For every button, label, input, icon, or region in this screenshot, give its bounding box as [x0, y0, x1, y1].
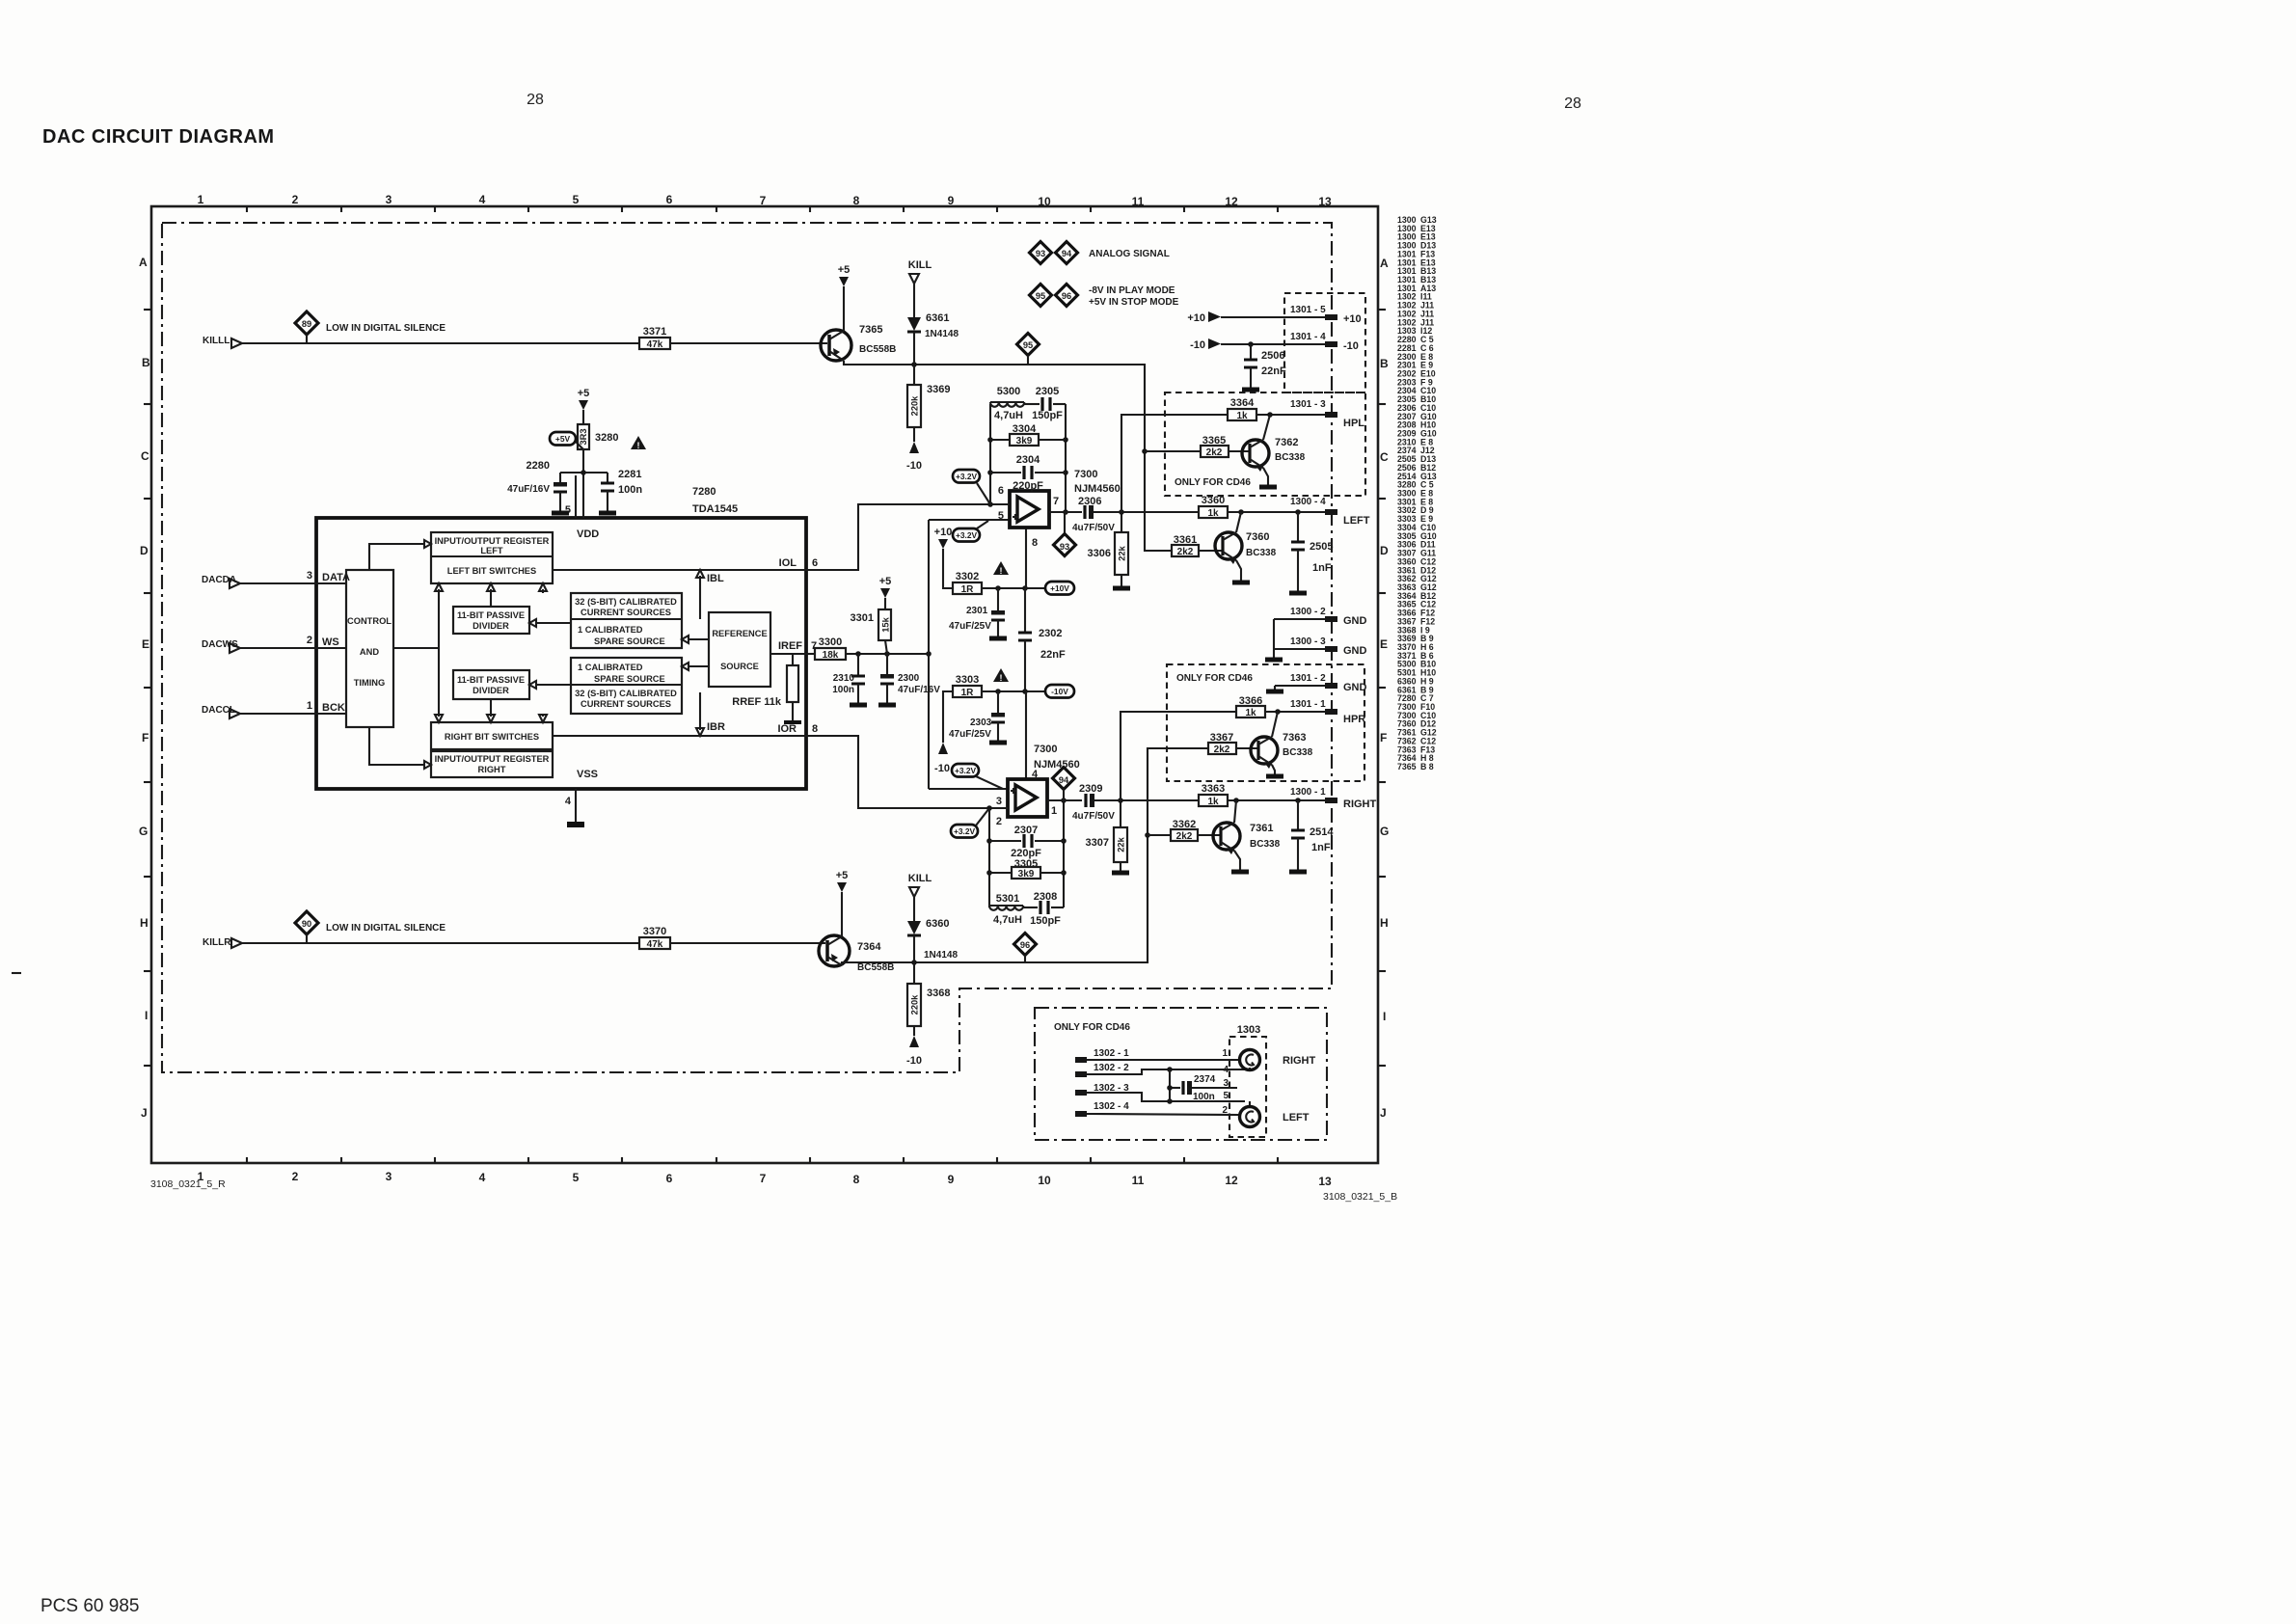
- svg-text:1300 - 1: 1300 - 1: [1290, 787, 1326, 798]
- svg-text:100n: 100n: [832, 685, 854, 695]
- supply node oval +3.2V at pin2: [951, 808, 989, 838]
- svg-text:1: 1: [198, 193, 204, 206]
- svg-text:7364: 7364: [857, 941, 881, 953]
- svg-text:F: F: [142, 731, 149, 744]
- wire HPR tap from RIGHT line: [1121, 712, 1236, 800]
- connector jack RIGHT phono: [1240, 1050, 1316, 1070]
- svg-text:5: 5: [573, 193, 580, 206]
- warning triangle upper: [993, 561, 1009, 576]
- supply arrow -10 below 3368: [906, 1026, 922, 1067]
- svg-text:1R: 1R: [961, 688, 975, 698]
- svg-text:!: !: [637, 441, 640, 450]
- svg-text:C: C: [1380, 450, 1389, 464]
- svg-text:+10: +10: [1187, 312, 1205, 324]
- svg-text:WS: WS: [322, 636, 339, 648]
- svg-text:RIGHT: RIGHT: [478, 765, 506, 774]
- wire reference to spare source lower arrow: [689, 665, 709, 667]
- resistor 3365 2k2: [1201, 435, 1250, 458]
- svg-text:2k2: 2k2: [1177, 547, 1194, 557]
- svg-text:32 (S-BIT) CALIBRATED: 32 (S-BIT) CALIBRATED: [575, 597, 677, 607]
- node 1302-1 wire: [1075, 1048, 1239, 1063]
- diamond 89 low in digital silence: [295, 311, 318, 343]
- frame column ticks top: [247, 206, 1278, 212]
- svg-text:150pF: 150pF: [1032, 410, 1063, 421]
- svg-text:96: 96: [1020, 940, 1030, 950]
- supply arrow +5 at 7365 collector: [838, 264, 851, 331]
- svg-text:-10: -10: [906, 460, 922, 472]
- svg-text:-10: -10: [934, 763, 950, 774]
- supply node oval +5V: [550, 432, 583, 449]
- svg-text:2309: 2309: [1079, 783, 1102, 795]
- resistor 3301 15k: [851, 609, 891, 654]
- svg-text:3k9: 3k9: [1016, 436, 1033, 447]
- svg-text:22nF: 22nF: [1261, 365, 1286, 377]
- svg-text:7365B 8: 7365B 8: [1397, 762, 1434, 771]
- svg-text:7361: 7361: [1250, 823, 1273, 834]
- supply arrow -10 feed: [934, 691, 953, 774]
- svg-text:2304: 2304: [1016, 454, 1040, 466]
- svg-text:+10V: +10V: [1050, 583, 1069, 593]
- svg-text:90: 90: [302, 919, 311, 929]
- grid column numbers bottom: [198, 1170, 1332, 1188]
- svg-text:KILLR: KILLR: [203, 937, 231, 948]
- svg-text:1302 - 2: 1302 - 2: [1094, 1063, 1129, 1073]
- svg-text:3306: 3306: [1088, 548, 1111, 559]
- transistor 7362 BC338: [1242, 415, 1306, 487]
- capacitor 2307 220pF: [989, 825, 1064, 859]
- svg-text:4,7uH: 4,7uH: [993, 914, 1022, 926]
- svg-text:ONLY FOR CD46: ONLY FOR CD46: [1176, 673, 1253, 684]
- svg-text:1: 1: [1051, 805, 1057, 817]
- schematic frame border: [151, 206, 1378, 1163]
- svg-text:1302 - 1: 1302 - 1: [1094, 1048, 1129, 1059]
- svg-text:2300: 2300: [898, 673, 920, 684]
- legend diamond 94: [1056, 242, 1078, 264]
- resistor 3302 1R: [953, 571, 1045, 595]
- dashed box 1303 phono connector: [1229, 1037, 1266, 1137]
- svg-text:IOL: IOL: [779, 557, 797, 569]
- inductor 5301 4,7uH: [989, 893, 1023, 926]
- supply arrow +5 at 7364 collector: [836, 870, 849, 936]
- svg-text:12: 12: [1225, 195, 1238, 208]
- svg-text:7300: 7300: [1034, 744, 1057, 755]
- svg-text:3363: 3363: [1202, 783, 1225, 795]
- svg-text:13: 13: [1318, 195, 1332, 208]
- wire opamp2 pin4 to -10 rail: [1025, 691, 1027, 779]
- node +10 supply input to 1301-5: [1187, 305, 1361, 325]
- svg-text:3: 3: [1223, 1078, 1229, 1089]
- svg-text:1300 - 2: 1300 - 2: [1290, 607, 1326, 617]
- svg-text:3: 3: [386, 1170, 392, 1183]
- svg-text:2310: 2310: [833, 673, 855, 684]
- node 1301-2 GND terminal: [1275, 673, 1367, 693]
- svg-text:ANALOG SIGNAL: ANALOG SIGNAL: [1089, 249, 1170, 259]
- supply arrow +5 above 3280: [578, 388, 590, 424]
- feedback network op-amp1 right rail: [1065, 404, 1067, 512]
- svg-text:22nF: 22nF: [1040, 649, 1066, 661]
- capacitor 2310 100n: [832, 654, 867, 705]
- svg-text:8: 8: [853, 1173, 860, 1186]
- svg-text:3302: 3302: [956, 571, 979, 582]
- wire control to I/O register right with arrow: [369, 727, 424, 765]
- capacitor 2280 47uF/16V: [507, 460, 569, 513]
- op-amp U7300b NJM4560: [996, 779, 1057, 827]
- resistor 3363 1k on RIGHT line: [1199, 783, 1325, 807]
- svg-text:LOW IN DIGITAL SILENCE: LOW IN DIGITAL SILENCE: [326, 923, 446, 934]
- resistor 3360 1k on LEFT line: [1199, 495, 1325, 519]
- svg-text:4u7F/50V: 4u7F/50V: [1072, 523, 1115, 533]
- svg-text:22k: 22k: [1117, 836, 1126, 852]
- svg-text:RIGHT BIT SWITCHES: RIGHT BIT SWITCHES: [445, 732, 539, 742]
- svg-text:1k: 1k: [1207, 508, 1219, 519]
- svg-text:9: 9: [948, 1173, 955, 1186]
- svg-text:TDA1545: TDA1545: [692, 503, 738, 515]
- svg-text:1300 - 3: 1300 - 3: [1290, 636, 1326, 647]
- svg-text:+10: +10: [1343, 313, 1362, 325]
- svg-text:1: 1: [198, 1170, 204, 1183]
- svg-text:NJM4560: NJM4560: [1074, 483, 1121, 495]
- svg-text:4u7F/50V: 4u7F/50V: [1072, 811, 1115, 822]
- resistor 3364 1k: [1228, 397, 1325, 421]
- svg-text:F: F: [1380, 731, 1387, 744]
- svg-text:2: 2: [996, 816, 1002, 827]
- grid row letters left: [139, 256, 150, 1120]
- svg-text:7280: 7280: [692, 486, 716, 498]
- wire HPL tap from LEFT line: [1121, 415, 1228, 512]
- svg-text:E: E: [1380, 637, 1388, 651]
- supply arrow +5 above 3301: [879, 576, 892, 609]
- resistor 3307 22k to ground: [1086, 798, 1129, 873]
- supply node oval +3.2V at pin5: [953, 521, 988, 542]
- svg-text:5300: 5300: [997, 386, 1020, 397]
- svg-text:+5V: +5V: [555, 434, 571, 444]
- svg-text:7360: 7360: [1246, 531, 1269, 543]
- svg-text:GND: GND: [1343, 645, 1367, 657]
- connector jack LEFT phono: [1240, 1107, 1310, 1127]
- wire KILLR mute rail: [842, 748, 1208, 965]
- svg-text:4: 4: [565, 796, 572, 807]
- svg-text:3108_0321_5_R: 3108_0321_5_R: [150, 1178, 226, 1190]
- svg-text:3370: 3370: [643, 926, 666, 937]
- svg-text:C: C: [141, 449, 149, 463]
- wire KILLL line: [242, 342, 827, 344]
- svg-text:47k: 47k: [647, 339, 663, 350]
- input DACCL pin 1 BCK: [202, 700, 346, 718]
- svg-text:47uF/25V: 47uF/25V: [949, 621, 991, 632]
- svg-text:1: 1: [1222, 1048, 1228, 1059]
- capacitor 2374 100n: [1167, 1069, 1237, 1102]
- svg-text:CURRENT SOURCES: CURRENT SOURCES: [581, 608, 671, 617]
- svg-text:4: 4: [1223, 1065, 1229, 1075]
- svg-text:18k: 18k: [823, 650, 839, 661]
- wire pin5 line: [929, 519, 1010, 521]
- svg-text:+5: +5: [879, 576, 892, 587]
- svg-text:!: !: [1000, 673, 1003, 683]
- svg-text:RREF 11k: RREF 11k: [732, 696, 782, 708]
- svg-text:3307: 3307: [1086, 837, 1109, 849]
- supply arrow -10 below 3369: [906, 427, 922, 472]
- svg-text:150pF: 150pF: [1030, 915, 1061, 927]
- svg-text:BC338: BC338: [1283, 747, 1313, 758]
- block REFERENCE SOURCE: [709, 612, 770, 687]
- svg-text:IBR: IBR: [707, 721, 725, 733]
- svg-text:2: 2: [307, 635, 312, 646]
- input DACDA pin 3 DATA: [202, 570, 350, 588]
- legend diamond 93: [1030, 242, 1052, 264]
- svg-text:3301: 3301: [851, 612, 874, 624]
- svg-text:BC558B: BC558B: [859, 344, 896, 355]
- wire divider upper to left switches arrow: [490, 589, 492, 607]
- svg-text:ONLY FOR CD46: ONLY FOR CD46: [1054, 1022, 1130, 1033]
- block INPUT/OUTPUT REGISTER RIGHT: [431, 751, 553, 777]
- feedback network op-amp2 right rail: [1063, 800, 1065, 907]
- svg-text:D: D: [140, 544, 149, 557]
- svg-text:2: 2: [292, 1170, 299, 1183]
- capacitor 2301 47uF/25V: [949, 588, 1007, 638]
- svg-text:VSS: VSS: [577, 769, 598, 780]
- capacitor 2304 220pF: [990, 454, 1066, 492]
- svg-text:6: 6: [666, 1172, 673, 1185]
- dashed box ONLY FOR CD46 (HPR): [1167, 664, 1364, 781]
- svg-text:100n: 100n: [1193, 1092, 1215, 1102]
- capacitor 2514 1nF: [1289, 800, 1334, 872]
- svg-text:95: 95: [1023, 340, 1033, 350]
- svg-text:2505: 2505: [1310, 541, 1333, 553]
- wire control to trunk: [393, 647, 439, 649]
- block 11-BIT PASSIVE DIVIDER lower: [453, 670, 529, 699]
- svg-text:11: 11: [1132, 195, 1145, 208]
- svg-text:J: J: [1380, 1106, 1387, 1120]
- svg-text:KILL: KILL: [908, 259, 932, 271]
- input DACWS pin 2 WS: [202, 635, 346, 653]
- svg-text:DAC CIRCUIT DIAGRAM: DAC CIRCUIT DIAGRAM: [42, 126, 275, 148]
- diode 6360 1N4148: [907, 918, 958, 962]
- svg-text:GND: GND: [1343, 615, 1367, 627]
- resistor 3371 47k: [639, 326, 670, 350]
- svg-text:89: 89: [302, 319, 311, 329]
- frame row ticks left and right: [144, 310, 1386, 1066]
- capacitor 2506 22nF: [1242, 344, 1286, 390]
- svg-text:A: A: [1380, 257, 1389, 270]
- svg-text:7362: 7362: [1275, 437, 1298, 448]
- wire mute branch to 3362: [1148, 834, 1171, 836]
- node 1300-3 GND terminal: [1274, 636, 1367, 657]
- svg-text:47k: 47k: [647, 939, 663, 950]
- svg-text:13: 13: [1318, 1175, 1332, 1188]
- wire op-amp2 output pin1: [1047, 799, 1082, 801]
- svg-text:8: 8: [853, 194, 860, 207]
- svg-text:1k: 1k: [1236, 411, 1248, 421]
- svg-text:2k2: 2k2: [1214, 744, 1230, 755]
- wire bus trunk between switches: [438, 589, 440, 717]
- svg-text:NJM4560: NJM4560: [1034, 759, 1080, 771]
- wire IBR arrow into IOR: [699, 692, 701, 730]
- resistor 3305 3k9: [989, 858, 1064, 880]
- svg-text:3369: 3369: [927, 384, 950, 395]
- svg-text:220k: 220k: [910, 395, 920, 417]
- svg-text:6: 6: [998, 485, 1004, 497]
- feedback network op-amp1 left rail: [989, 404, 991, 504]
- svg-text:7: 7: [760, 1172, 767, 1185]
- svg-text:J: J: [141, 1106, 148, 1120]
- svg-text:3108_0321_5_B: 3108_0321_5_B: [1323, 1191, 1397, 1203]
- node KILLL input: [203, 336, 242, 348]
- svg-text:8: 8: [1032, 537, 1038, 549]
- svg-text:3364: 3364: [1230, 397, 1255, 409]
- svg-text:2k2: 2k2: [1206, 447, 1223, 458]
- svg-text:+5V IN STOP MODE: +5V IN STOP MODE: [1089, 297, 1179, 308]
- grid column numbers top: [198, 193, 1332, 208]
- resistor 3362 2k2: [1171, 819, 1221, 842]
- svg-text:HPL: HPL: [1343, 418, 1364, 429]
- transistor 7361 BC338: [1213, 800, 1281, 872]
- svg-text:47uF/25V: 47uF/25V: [949, 729, 991, 740]
- svg-text:3: 3: [307, 570, 312, 582]
- svg-text:IREF: IREF: [778, 640, 802, 652]
- diamond 93 on left output: [1054, 512, 1076, 556]
- svg-text:1k: 1k: [1245, 708, 1256, 718]
- svg-text:8: 8: [812, 723, 818, 735]
- svg-text:32 (S-BIT) CALIBRATED: 32 (S-BIT) CALIBRATED: [575, 689, 677, 698]
- svg-text:4: 4: [479, 193, 486, 206]
- svg-text:2303: 2303: [970, 717, 992, 728]
- svg-text:6360: 6360: [926, 918, 949, 930]
- diamond 96 on mute rail: [1014, 934, 1037, 963]
- svg-text:TIMING: TIMING: [354, 678, 386, 688]
- svg-text:2302: 2302: [1039, 628, 1062, 639]
- svg-text:LEFT: LEFT: [1283, 1112, 1310, 1123]
- svg-text:3280: 3280: [595, 432, 618, 444]
- svg-text:94: 94: [1062, 249, 1072, 258]
- resistor 3280 3R3: [578, 424, 618, 518]
- svg-text:2305: 2305: [1036, 386, 1059, 397]
- wire reference to spare source upper arrow: [689, 638, 709, 640]
- svg-text:4,7uH: 4,7uH: [994, 410, 1023, 421]
- svg-text:96: 96: [1062, 291, 1071, 301]
- svg-text:BC558B: BC558B: [857, 962, 894, 973]
- grid row letters right: [1380, 257, 1389, 1120]
- svg-text:-8V IN PLAY MODE: -8V IN PLAY MODE: [1089, 285, 1175, 296]
- dash-dot box ONLY FOR CD46 (line out connectors): [1035, 1008, 1327, 1140]
- svg-text:D: D: [1380, 544, 1389, 557]
- block CONTROL AND TIMING: [346, 570, 393, 727]
- ground at 1300-2/3: [1265, 619, 1283, 660]
- wire opamp1 pin8 to +10 rail: [1025, 528, 1027, 588]
- svg-text:10: 10: [1038, 1174, 1051, 1187]
- svg-text:28: 28: [1564, 95, 1581, 112]
- svg-text:5: 5: [998, 510, 1004, 522]
- op-amp U7300a NJM4560: [998, 485, 1059, 528]
- resistor 3366 1k: [1236, 695, 1325, 718]
- svg-text:1nF: 1nF: [1311, 842, 1331, 853]
- svg-text:BCK: BCK: [322, 702, 345, 714]
- svg-text:DATA: DATA: [322, 572, 350, 583]
- svg-text:1nF: 1nF: [1312, 562, 1332, 574]
- svg-text:5: 5: [1223, 1091, 1229, 1101]
- svg-text:+3.2V: +3.2V: [956, 472, 978, 481]
- svg-text:5301: 5301: [996, 893, 1019, 905]
- svg-text:28: 28: [527, 92, 544, 108]
- node KILL (bottom): [908, 873, 932, 921]
- capacitor 2306 4u7F/50V: [1072, 496, 1201, 533]
- svg-text:7: 7: [1053, 496, 1059, 507]
- svg-text:12: 12: [1225, 1174, 1238, 1187]
- svg-text:100n: 100n: [618, 484, 642, 496]
- svg-text:GND: GND: [1343, 682, 1367, 693]
- svg-text:6361: 6361: [926, 312, 949, 324]
- wire current sources upper to left switches arrow: [542, 589, 544, 593]
- svg-text:INPUT/OUTPUT REGISTER: INPUT/OUTPUT REGISTER: [435, 536, 550, 546]
- svg-text:1303: 1303: [1237, 1024, 1260, 1036]
- block 11-BIT PASSIVE DIVIDER upper: [453, 607, 529, 634]
- svg-text:SPARE SOURCE: SPARE SOURCE: [594, 636, 665, 646]
- capacitor 2505 1nF: [1289, 512, 1333, 593]
- svg-text:7363: 7363: [1283, 732, 1306, 744]
- block 1 CALIBRATED SPARE SOURCE / 32 (S-BIT) CALIBRATED CURRENT SOURCES lower: [571, 658, 682, 714]
- svg-text:BC338: BC338: [1246, 548, 1277, 558]
- warning triangle near 3280: [631, 436, 646, 450]
- resistor 3367 2k2: [1208, 732, 1258, 755]
- svg-text:220pF: 220pF: [1013, 480, 1043, 492]
- capacitor 2302 22nF between rails: [1018, 588, 1066, 691]
- node -10 supply input to 1301-4: [1190, 332, 1359, 352]
- svg-text:+5: +5: [838, 264, 851, 276]
- svg-text:H: H: [140, 916, 149, 930]
- node 1302-2 wire: [1075, 1063, 1250, 1077]
- supply node oval +3.2V at pin6: [953, 470, 990, 504]
- wire IBL arrow into IOL: [699, 576, 701, 619]
- svg-text:LOW IN DIGITAL SILENCE: LOW IN DIGITAL SILENCE: [326, 323, 446, 334]
- svg-text:1k: 1k: [1207, 797, 1219, 807]
- resistor 3304 3k9: [990, 423, 1066, 447]
- svg-text:CURRENT SOURCES: CURRENT SOURCES: [581, 699, 671, 709]
- svg-text:KILL: KILL: [908, 873, 932, 884]
- wire current sources lower to right switches arrow: [542, 714, 544, 717]
- svg-text:LEFT: LEFT: [480, 546, 503, 555]
- svg-text:I: I: [1383, 1010, 1386, 1023]
- svg-text:3: 3: [996, 796, 1002, 807]
- node KILLR input: [203, 937, 242, 948]
- svg-text:-10: -10: [1190, 339, 1205, 351]
- PCB dash-dot boundary: [162, 223, 1332, 1072]
- capacitor 2300 47uF/16V: [878, 654, 940, 705]
- wire IOR to op-amp2 inverting input: [806, 736, 1008, 808]
- resistor 3361 2k2: [1172, 534, 1223, 557]
- node KILL (top): [908, 259, 932, 317]
- svg-text:7: 7: [760, 194, 767, 207]
- svg-text:93: 93: [1036, 249, 1045, 258]
- svg-text:2308: 2308: [1034, 891, 1057, 903]
- capacitor 2281 100n: [599, 469, 642, 513]
- svg-text:93: 93: [1060, 542, 1069, 552]
- node 1300-1 RIGHT terminal: [1290, 787, 1377, 810]
- wire divider lower to right switches arrow: [490, 699, 492, 717]
- wire IREF reference to pin 7: [770, 653, 806, 655]
- node 1301-1 HPR terminal: [1290, 699, 1365, 725]
- node 1300-4 LEFT terminal: [1290, 497, 1370, 527]
- svg-text:9: 9: [948, 194, 955, 207]
- wire KILLL mute rail: [844, 361, 1172, 551]
- svg-text:BC338: BC338: [1250, 839, 1281, 850]
- svg-text:1N4148: 1N4148: [925, 329, 959, 339]
- svg-text:7365: 7365: [859, 324, 882, 336]
- svg-text:RIGHT: RIGHT: [1283, 1055, 1316, 1067]
- dashed box ONLY FOR CD46 (HPL): [1165, 392, 1365, 496]
- svg-text:11: 11: [1132, 1174, 1145, 1187]
- svg-text:1 CALIBRATED: 1 CALIBRATED: [578, 663, 643, 672]
- svg-text:15k: 15k: [881, 616, 891, 632]
- svg-text:SOURCE: SOURCE: [720, 662, 759, 671]
